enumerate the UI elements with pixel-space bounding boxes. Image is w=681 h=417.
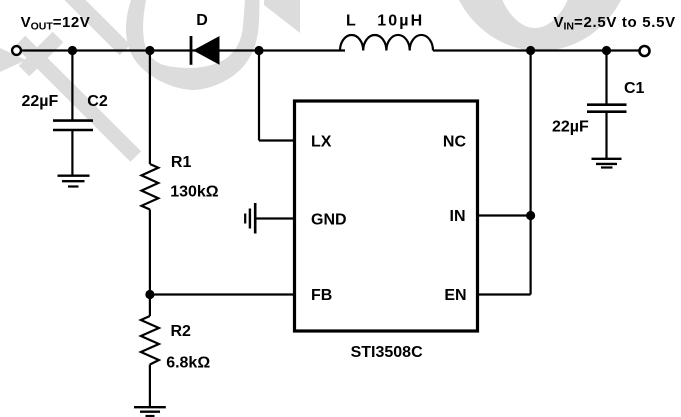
- svg-text:6.8kΩ: 6.8kΩ: [166, 354, 210, 371]
- svg-text:C1: C1: [624, 80, 645, 97]
- svg-text:C2: C2: [87, 93, 108, 110]
- svg-text:R1: R1: [171, 154, 192, 171]
- svg-text:IN: IN: [450, 208, 466, 225]
- svg-text:D: D: [196, 12, 208, 29]
- svg-text:22µF: 22µF: [552, 119, 589, 136]
- svg-text:FB: FB: [311, 287, 332, 304]
- svg-text:10µH: 10µH: [377, 12, 424, 29]
- svg-text:VOUT=12V: VOUT=12V: [21, 14, 91, 33]
- svg-text:L: L: [346, 13, 356, 30]
- svg-text:130kΩ: 130kΩ: [170, 184, 219, 201]
- svg-text:EN: EN: [444, 287, 466, 304]
- svg-text:R2: R2: [171, 323, 192, 340]
- svg-text:STI3508C: STI3508C: [351, 344, 423, 361]
- svg-text:22µF: 22µF: [22, 93, 59, 110]
- svg-text:NC: NC: [443, 134, 467, 151]
- svg-text:GND: GND: [311, 211, 347, 228]
- svg-text:LX: LX: [311, 134, 332, 151]
